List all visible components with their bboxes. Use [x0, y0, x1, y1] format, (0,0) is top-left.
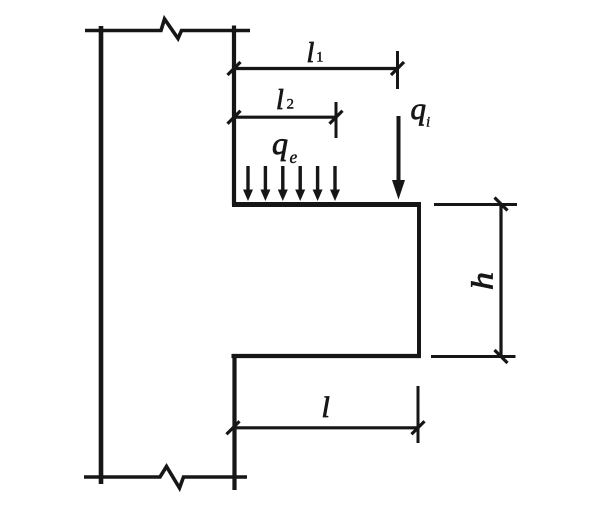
svg-text:l: l — [276, 85, 284, 116]
dimension line l1 — [234, 67, 398, 70]
tick at l2 right end — [330, 111, 343, 124]
svg-text:2: 2 — [287, 97, 295, 113]
dimension line l (bottom) — [233, 426, 418, 429]
tick at l left end — [227, 421, 240, 434]
svg-text:1: 1 — [316, 50, 324, 66]
distributed load arrows q_e (6 arrows) — [248, 166, 335, 193]
svg-text:i: i — [426, 115, 430, 131]
column right edge line, upper part — [232, 26, 236, 206]
corbel bottom edge — [232, 354, 421, 358]
tick at h bottom end — [495, 350, 508, 363]
corbel right edge — [417, 202, 421, 358]
bottom break line (cut line with zigzag) — [84, 467, 247, 489]
svg-text:h: h — [465, 272, 500, 290]
extension line for l1 right end — [396, 51, 399, 89]
svg-text:l: l — [307, 38, 315, 69]
extension line for l right end — [417, 386, 420, 443]
corbel top edge — [232, 202, 420, 207]
top break line (cut line with zigzag) — [85, 19, 250, 39]
extension line for h top — [434, 203, 517, 206]
extension line for l2 right end — [335, 102, 338, 138]
concentrated load arrow q_i — [397, 116, 401, 185]
svg-text:q: q — [411, 91, 427, 126]
svg-text:l: l — [322, 391, 330, 424]
svg-text:q: q — [272, 125, 288, 161]
tick at l2 left end — [228, 111, 241, 124]
column left edge line — [99, 26, 104, 484]
tick at l right end — [412, 421, 425, 434]
column right edge line, lower part — [232, 354, 236, 490]
tick at h top end — [495, 198, 508, 211]
dimension line h (vertical, right side) — [499, 204, 502, 357]
extension line for h bottom — [431, 355, 516, 358]
svg-text:e: e — [290, 147, 298, 167]
dimension line l2 — [234, 116, 336, 119]
tick at l1 left end — [228, 62, 241, 75]
tick at l1 right end — [391, 62, 404, 75]
